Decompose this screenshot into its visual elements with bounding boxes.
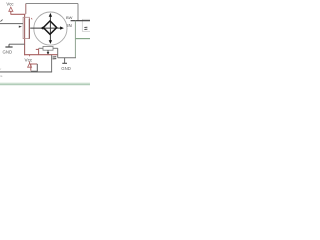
- svg-text:r: r: [0, 67, 1, 71]
- panel right edge: [82, 19, 91, 31]
- svg-text:Vcc: Vcc: [25, 58, 33, 63]
- wire green long bottom band: [0, 83, 90, 84]
- ground GND left: [3, 44, 13, 54]
- svg-text:GND: GND: [61, 66, 71, 71]
- resistor R1 vertical body: [23, 17, 29, 38]
- dependent source diamond: [43, 21, 56, 34]
- wire top rail: [26, 3, 78, 5]
- svg-text:Vcc: Vcc: [6, 2, 14, 7]
- svg-text:BW: BW: [66, 15, 73, 20]
- current arrow into emitter node: [47, 50, 50, 54]
- label left edge: [0, 20, 2, 22]
- wire red riser left of R2: [36, 48, 39, 54]
- component box red: [31, 64, 38, 71]
- crosshair horizontal with arrows: [30, 26, 64, 29]
- wire ground rail left: [9, 43, 25, 45]
- current arrow on base wire: [19, 26, 22, 28]
- resistor R2 horizontal body: [43, 46, 53, 50]
- power flag Vcc top-left: [9, 7, 13, 14]
- wire R2 left lead: [39, 47, 43, 49]
- wire vertical to long bottom wire: [51, 55, 53, 72]
- label left edge small: [0, 67, 3, 78]
- wire right vertical from rail: [77, 4, 79, 21]
- label Vcc (bottom flag): [29, 55, 31, 64]
- wire bottom-right horizontal: [58, 57, 76, 59]
- power flag Vcc bottom: [28, 63, 32, 67]
- svg-text:IN: IN: [67, 23, 71, 28]
- label 9R: [53, 57, 57, 59]
- wire long bottom: [0, 71, 52, 73]
- wire base input: [0, 23, 23, 25]
- crosshair vertical with arrows: [49, 13, 52, 44]
- wire dark collector stub: [71, 20, 90, 22]
- wire red emitter rail: [24, 54, 58, 56]
- wire R2 right lead: [53, 47, 58, 49]
- wire Vcc horizontal: [11, 13, 26, 15]
- transistor circle: [34, 12, 67, 45]
- wire vertical right branch: [74, 21, 76, 58]
- wire green output: [75, 38, 90, 40]
- svg-text:GND: GND: [3, 49, 13, 54]
- red tick near R1 top right: [31, 18, 32, 19]
- wire R1 lead vertical (through body): [24, 14, 26, 55]
- wire vertical to top rail: [25, 4, 27, 14]
- wire vertical R2 to bottom rail: [57, 48, 59, 58]
- ground GND right: [61, 58, 71, 71]
- value marks right edge: [84, 27, 87, 29]
